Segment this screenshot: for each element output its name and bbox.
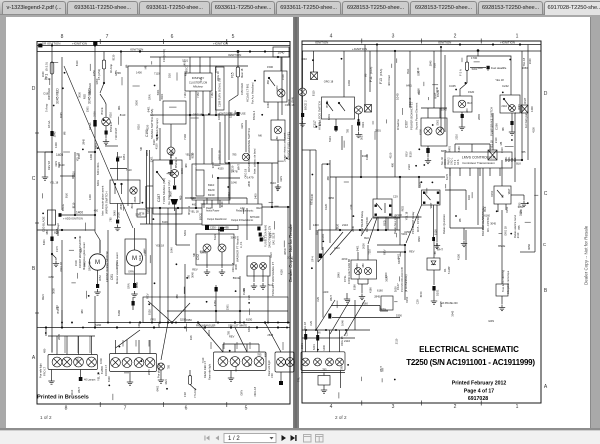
junction [404, 244, 406, 246]
svg-text:6201: 6201 [207, 330, 211, 336]
svg-text:3045: 3045 [234, 365, 238, 371]
svg-text:Fwr mkr light: Fwr mkr light [39, 363, 43, 378]
wire stub s1a [41, 193, 43, 198]
svg-text:1 of 2: 1 of 2 [40, 415, 52, 420]
wire bus y311 [380, 310, 388, 312]
wire stub s1d [149, 255, 151, 263]
tab 6933611-T2250-shee... [211, 1, 275, 14]
svg-text:2110: 2110 [342, 223, 348, 227]
junction s1a [42, 213, 44, 215]
svg-text:RED: RED [400, 206, 404, 212]
sheet1 grid tick bottom [226, 402, 228, 407]
svg-text:460: 460 [465, 108, 469, 113]
svg-text:1040: 1040 [231, 180, 237, 184]
wire coil feed [280, 57, 282, 71]
svg-text:2110: 2110 [416, 67, 420, 73]
wire run sheet2 [341, 136, 343, 150]
svg-text:2845: 2845 [267, 333, 273, 337]
wire stub s1c [269, 202, 274, 204]
svg-text:2845: 2845 [374, 295, 380, 299]
wire stub s1c [277, 160, 283, 162]
wire R6 out a [497, 204, 499, 212]
junction s2h [527, 202, 529, 204]
svg-text:ORG 18: ORG 18 [253, 386, 257, 396]
svg-text:For Aux Headland: For Aux Headland [251, 82, 255, 104]
wire run sheet2 [477, 168, 479, 225]
svg-text:785: 785 [517, 225, 521, 230]
junction lamp bus [107, 322, 109, 324]
svg-text:ORG 18: ORG 18 [324, 79, 334, 83]
svg-text:RED: RED [83, 94, 87, 100]
svg-text:2110: 2110 [407, 164, 411, 170]
svg-text:1700: 1700 [471, 56, 478, 60]
svg-text:+IGNITION: +IGNITION [72, 41, 87, 45]
C217 contact a [326, 102, 333, 111]
ground G21 [355, 132, 361, 138]
svg-text:M6: M6 [248, 363, 252, 367]
wire to M2 [134, 228, 136, 250]
junction s1b [142, 202, 144, 204]
ground G3 [103, 139, 109, 145]
junction lamp bus [184, 327, 186, 329]
svg-text:785: 785 [433, 251, 437, 256]
svg-text:6160: 6160 [377, 289, 383, 293]
svg-text:8130: 8130 [191, 152, 195, 158]
junction y230 [339, 229, 341, 231]
svg-text:Avrtis Power: Avrtis Power [206, 210, 220, 213]
svg-text:3: 3 [392, 34, 395, 40]
junction y207 [271, 206, 273, 208]
junction y311b [239, 310, 241, 312]
svg-text:5: 5 [245, 406, 248, 412]
junction s1e [235, 290, 237, 292]
svg-text:6160: 6160 [146, 207, 150, 213]
junction lamp bus [61, 322, 63, 324]
wire stub s1b [122, 207, 124, 211]
wire to ground stub [45, 151, 52, 153]
junction y230 [359, 229, 361, 231]
junction s1d [186, 277, 188, 279]
connector pin M1 [96, 284, 99, 288]
svg-text:REV: REV [192, 268, 198, 272]
connector block headlights LH [48, 355, 98, 370]
junction lamp bus [267, 322, 269, 324]
svg-text:Jauge niveau carburant: Jauge niveau carburant [283, 133, 287, 162]
connector pin C1 [50, 131, 53, 136]
svg-text:8110: 8110 [116, 155, 122, 159]
wiper contact b [121, 183, 123, 194]
wire down [523, 195, 525, 200]
wire R15 out a [433, 205, 435, 240]
wire stub s2e [360, 377, 362, 381]
wire jog [52, 254, 56, 260]
junction s2a [423, 164, 425, 166]
junction s2b [502, 92, 504, 94]
wire horn feed [94, 46, 96, 233]
lamp DS5 coil [277, 89, 285, 97]
diagonal wire V right [172, 303, 190, 323]
wire 1400 link [60, 214, 95, 216]
svg-text:2845: 2845 [247, 180, 251, 186]
svg-text:BLK: BLK [406, 69, 410, 74]
bus junction sheet2 [394, 50, 396, 52]
svg-text:D16: D16 [76, 358, 80, 363]
svg-text:6401: 6401 [361, 121, 365, 127]
svg-text:480: 480 [326, 176, 330, 181]
connector pin R15 [432, 237, 435, 241]
diode D1 [431, 261, 436, 265]
wire run sheet1 [145, 186, 147, 208]
svg-text:4150: 4150 [275, 185, 279, 191]
svg-text:18 GA: 18 GA [88, 122, 92, 130]
svg-text:6917028: 6917028 [468, 396, 488, 402]
wire stub i [302, 149, 316, 151]
wire stub s1c [214, 164, 220, 166]
svg-text:3050: 3050 [328, 196, 334, 200]
tab 6928153-T2250-shee... [410, 1, 477, 14]
svg-text:480: 480 [184, 163, 188, 168]
wire into PCB a [206, 198, 208, 204]
wire bus y322 [88, 322, 290, 324]
svg-text:3045 RED: 3045 RED [88, 83, 92, 95]
svg-text:F13 (A700): F13 (A700) [162, 49, 166, 62]
ground G15 [158, 377, 164, 383]
junction s2e [317, 349, 319, 351]
connector pin C27 [510, 121, 513, 125]
diagonal feed g3a [198, 323, 223, 353]
junction y327 [230, 326, 232, 328]
wire x323 [322, 247, 324, 318]
svg-text:8110: 8110 [72, 202, 76, 208]
bus junction [94, 44, 96, 46]
svg-text:REV: REV [404, 151, 408, 157]
wire LMVS out [479, 168, 481, 176]
svg-text:6150: 6150 [505, 206, 509, 212]
wire elbow to fuse [467, 51, 478, 62]
separator inner shade [295, 17, 298, 428]
lamp L22 worklight [134, 358, 144, 368]
junction s2a [341, 58, 343, 60]
wire stub s2c [336, 301, 338, 309]
svg-text:460: 460 [266, 79, 270, 84]
wire LMVS in b [471, 144, 473, 152]
wire run sheet2 [387, 218, 389, 230]
svg-text:YEL 18: YEL 18 [156, 243, 165, 247]
junction s1f [141, 360, 143, 362]
wire link k [505, 159, 522, 161]
wire stub s2d [525, 221, 531, 223]
wire stub s2a [402, 108, 404, 115]
svg-text:5301: 5301 [472, 67, 478, 71]
svg-text:1400: 1400 [322, 344, 326, 350]
connector block worklights [110, 354, 157, 372]
switch C287 TURN SIGNAL [153, 160, 182, 214]
junction s2c [432, 182, 434, 184]
svg-text:8130: 8130 [230, 165, 234, 171]
svg-text:4150: 4150 [342, 257, 348, 261]
lamp DS22 [424, 127, 432, 135]
svg-text:8110: 8110 [500, 147, 504, 153]
svg-text:7110: 7110 [201, 357, 205, 363]
svg-text:REV: REV [41, 294, 45, 300]
wire R6 link [511, 194, 524, 196]
wire jog to y163 [229, 95, 238, 160]
svg-text:460: 460 [179, 195, 183, 200]
svg-text:2845: 2845 [428, 60, 432, 66]
wire x62 [61, 310, 63, 328]
ground G28 [499, 305, 505, 311]
connector block right markers [275, 352, 294, 372]
svg-text:6122: 6122 [213, 234, 217, 240]
svg-text:5 AMP: 5 AMP [447, 266, 451, 274]
wire lamp drop [89, 336, 91, 353]
svg-text:TURN SIGNAL (NA): TURN SIGNAL (NA) [162, 178, 166, 204]
wire block out [211, 200, 213, 208]
wire into C189 inner [159, 57, 161, 101]
relay R15 pin [437, 202, 439, 204]
svg-text:BLK: BLK [433, 63, 437, 68]
svg-text:2: 2 [454, 404, 457, 410]
wire x395 feed [394, 51, 396, 177]
svg-text:ORG 18: ORG 18 [87, 261, 91, 271]
svg-text:1040: 1040 [441, 108, 447, 112]
wire C189 box left [127, 66, 129, 206]
diagonal from R9 a [361, 218, 373, 237]
wire stub s2c [445, 184, 447, 188]
wire bus y207 right [262, 206, 290, 208]
svg-text:6401: 6401 [160, 93, 164, 99]
wire run sheet2 [321, 164, 323, 250]
wire C73L join [358, 283, 368, 285]
junction feed [477, 49, 480, 52]
wire R15 out b [436, 205, 438, 242]
svg-text:IGNITION: IGNITION [130, 47, 143, 51]
svg-text:8: 8 [61, 34, 64, 40]
wire link y245 [377, 244, 405, 246]
wire C73L in b [367, 245, 369, 260]
connector pin C3 [105, 131, 108, 135]
wire stub s2g [344, 181, 349, 183]
wire M2 tail [134, 274, 136, 283]
svg-text:2845: 2845 [351, 225, 355, 231]
svg-text:40 Amp: 40 Amp [109, 64, 113, 73]
svg-text:GRN: GRN [279, 176, 283, 182]
bus IGNITION sheet2 [302, 44, 541, 46]
junction y327 [61, 326, 63, 328]
ground G23 [459, 124, 465, 130]
junction s1e [206, 301, 208, 303]
wire to M1 [99, 240, 101, 253]
wire run sheet2 [409, 51, 411, 108]
sheet1 grid tick bottom [99, 402, 101, 407]
wire run sheet1 [107, 230, 109, 323]
svg-text:1400: 1400 [89, 154, 93, 160]
wire bus y115 [150, 114, 235, 116]
junction s1d [88, 295, 90, 297]
junction s1b [153, 218, 155, 220]
svg-text:WHT: WHT [437, 247, 443, 251]
svg-text:D16: D16 [486, 65, 490, 70]
wire stub s1c [234, 110, 236, 114]
svg-text:BSCE: BSCE [498, 244, 505, 248]
wire x229 down [228, 163, 230, 204]
connector pin C22 [426, 148, 429, 153]
svg-text:7110 WHT: 7110 WHT [114, 127, 118, 140]
wire lamp drop [64, 336, 66, 353]
wire x522 long [521, 58, 523, 160]
bus junction sheet2 [376, 43, 378, 45]
wire link m [520, 251, 535, 253]
switch coil box [264, 71, 287, 102]
junction s1c [254, 80, 256, 82]
junction sheet2 bus [305, 329, 307, 331]
junction [61, 229, 63, 231]
svg-text:4: 4 [330, 34, 333, 40]
bus junction [264, 50, 266, 52]
svg-text:5301: 5301 [183, 230, 187, 236]
svg-text:1400: 1400 [88, 194, 92, 200]
svg-text:6: 6 [185, 406, 188, 412]
wire stub s1b [133, 85, 140, 87]
svg-text:GAUGE FUEL LEVEL: GAUGE FUEL LEVEL [287, 131, 291, 160]
ground G26 [359, 294, 365, 300]
svg-text:D1: D1 [443, 268, 447, 272]
svg-text:YEL 18: YEL 18 [489, 140, 493, 149]
wire lamp feed g1 [91, 336, 93, 355]
wire to K2 [364, 45, 366, 105]
junction y208 [177, 207, 179, 209]
svg-text:7110: 7110 [227, 191, 231, 197]
svg-text:M: M [95, 260, 100, 266]
ground G1 [42, 174, 48, 180]
wire stub s1c [201, 203, 205, 205]
svg-text:2110: 2110 [395, 338, 399, 344]
svg-text:3045: 3045 [190, 272, 194, 278]
junction lamp bus [82, 327, 84, 329]
junction s2a [455, 89, 457, 91]
wire dash feed [245, 120, 247, 152]
wire to ground stub [44, 152, 46, 174]
wire g1 ground [51, 370, 53, 379]
wire stub s1f [281, 327, 286, 329]
svg-text:2110: 2110 [344, 339, 350, 343]
label strip C350 [208, 225, 238, 229]
svg-text:6401: 6401 [406, 84, 412, 88]
wire x528 long [527, 58, 529, 160]
svg-text:For Fern park: For Fern park [524, 112, 528, 128]
junction s1a [53, 105, 55, 107]
relay R15 pin [423, 202, 425, 204]
wire stub s2e [382, 368, 384, 372]
resistor pack C20 [48, 210, 56, 225]
junction s2a [418, 148, 420, 150]
svg-text:8110: 8110 [312, 90, 316, 96]
svg-text:1479: 1479 [247, 176, 254, 180]
junction y230 [385, 229, 387, 231]
svg-text:Driveline: Driveline [396, 119, 400, 130]
relay R9 pin [375, 205, 377, 207]
svg-text:YEL 18: YEL 18 [50, 180, 59, 184]
connector pin C21 [334, 126, 337, 131]
wire relay link 2140 [393, 216, 422, 218]
wire stub s2g [399, 252, 401, 257]
junction s2a [432, 124, 434, 126]
diagonal feed r1 [316, 300, 335, 330]
wire stub s2h [499, 233, 503, 235]
svg-text:Dealer Copy -- Not for Resale: Dealer Copy -- Not for Resale [288, 224, 293, 282]
ground G27b [461, 241, 467, 247]
wire x352 [351, 150, 353, 230]
bus +IGNITION sheet1 [37, 45, 290, 47]
motor M2 rear wiper [127, 250, 143, 266]
wire run sheet2 [449, 168, 451, 228]
junction y115 [202, 114, 204, 116]
wire stub s2a [391, 64, 393, 68]
svg-text:785: 785 [521, 150, 526, 154]
wire block out [219, 200, 221, 208]
wire stub s1d [143, 249, 145, 254]
svg-text:1500: 1500 [281, 74, 285, 80]
diagonal wire b [330, 230, 352, 255]
svg-text:3050: 3050 [78, 91, 82, 97]
svg-text:C29: C29 [416, 299, 420, 304]
svg-text:4150: 4150 [48, 275, 54, 279]
svg-text:Output R Davidtronic: Output R Davidtronic [231, 219, 254, 222]
svg-text:F11: F11 [369, 76, 373, 82]
junction lamp bus [71, 322, 73, 324]
wire 6122 down [218, 230, 220, 245]
svg-text:480: 480 [45, 230, 49, 235]
junction lamp bus [277, 322, 279, 324]
wire link e [267, 276, 269, 290]
svg-text:8130: 8130 [45, 77, 51, 81]
junction [521, 159, 523, 161]
svg-text:C73L: C73L [343, 275, 347, 282]
wire x316 [315, 150, 317, 262]
svg-text:0820: 0820 [417, 236, 421, 242]
svg-text:9451: 9451 [122, 154, 126, 160]
sheet2 grid tick bottom [480, 401, 482, 406]
wire M1 to ground [97, 270, 99, 284]
bus junction [249, 50, 251, 52]
svg-text:+IGNITION 30 AMP FUSE: +IGNITION 30 AMP FUSE [218, 113, 246, 116]
wire run sheet1 [267, 290, 269, 323]
svg-text:2110: 2110 [501, 104, 507, 108]
svg-text:FRONT WIPER MOTOR: FRONT WIPER MOTOR [105, 251, 109, 282]
wire link y252 [377, 251, 405, 253]
wire stub s1d [69, 249, 74, 251]
wire link d [145, 186, 147, 208]
indicator K1 box [311, 72, 318, 80]
svg-text:1040: 1040 [278, 51, 285, 55]
ground G24b [509, 129, 515, 135]
wire bus y163 [225, 162, 278, 164]
svg-text:6160: 6160 [59, 163, 65, 167]
svg-text:1040: 1040 [217, 114, 221, 120]
svg-text:4150: 4150 [531, 127, 535, 133]
svg-text:Rear mkr light: Rear mkr light [208, 364, 212, 380]
wire lamp feed r [339, 330, 341, 352]
svg-text:1040: 1040 [301, 57, 307, 61]
wire to ground [170, 155, 172, 169]
svg-text:8110: 8110 [137, 123, 141, 129]
svg-text:7: 7 [124, 406, 127, 412]
wire power to ground [427, 146, 429, 157]
wire run sheet2 [534, 168, 536, 252]
lamp DS10 [251, 263, 258, 270]
wire run sheet2 [369, 51, 371, 92]
junction s2d [510, 233, 512, 235]
